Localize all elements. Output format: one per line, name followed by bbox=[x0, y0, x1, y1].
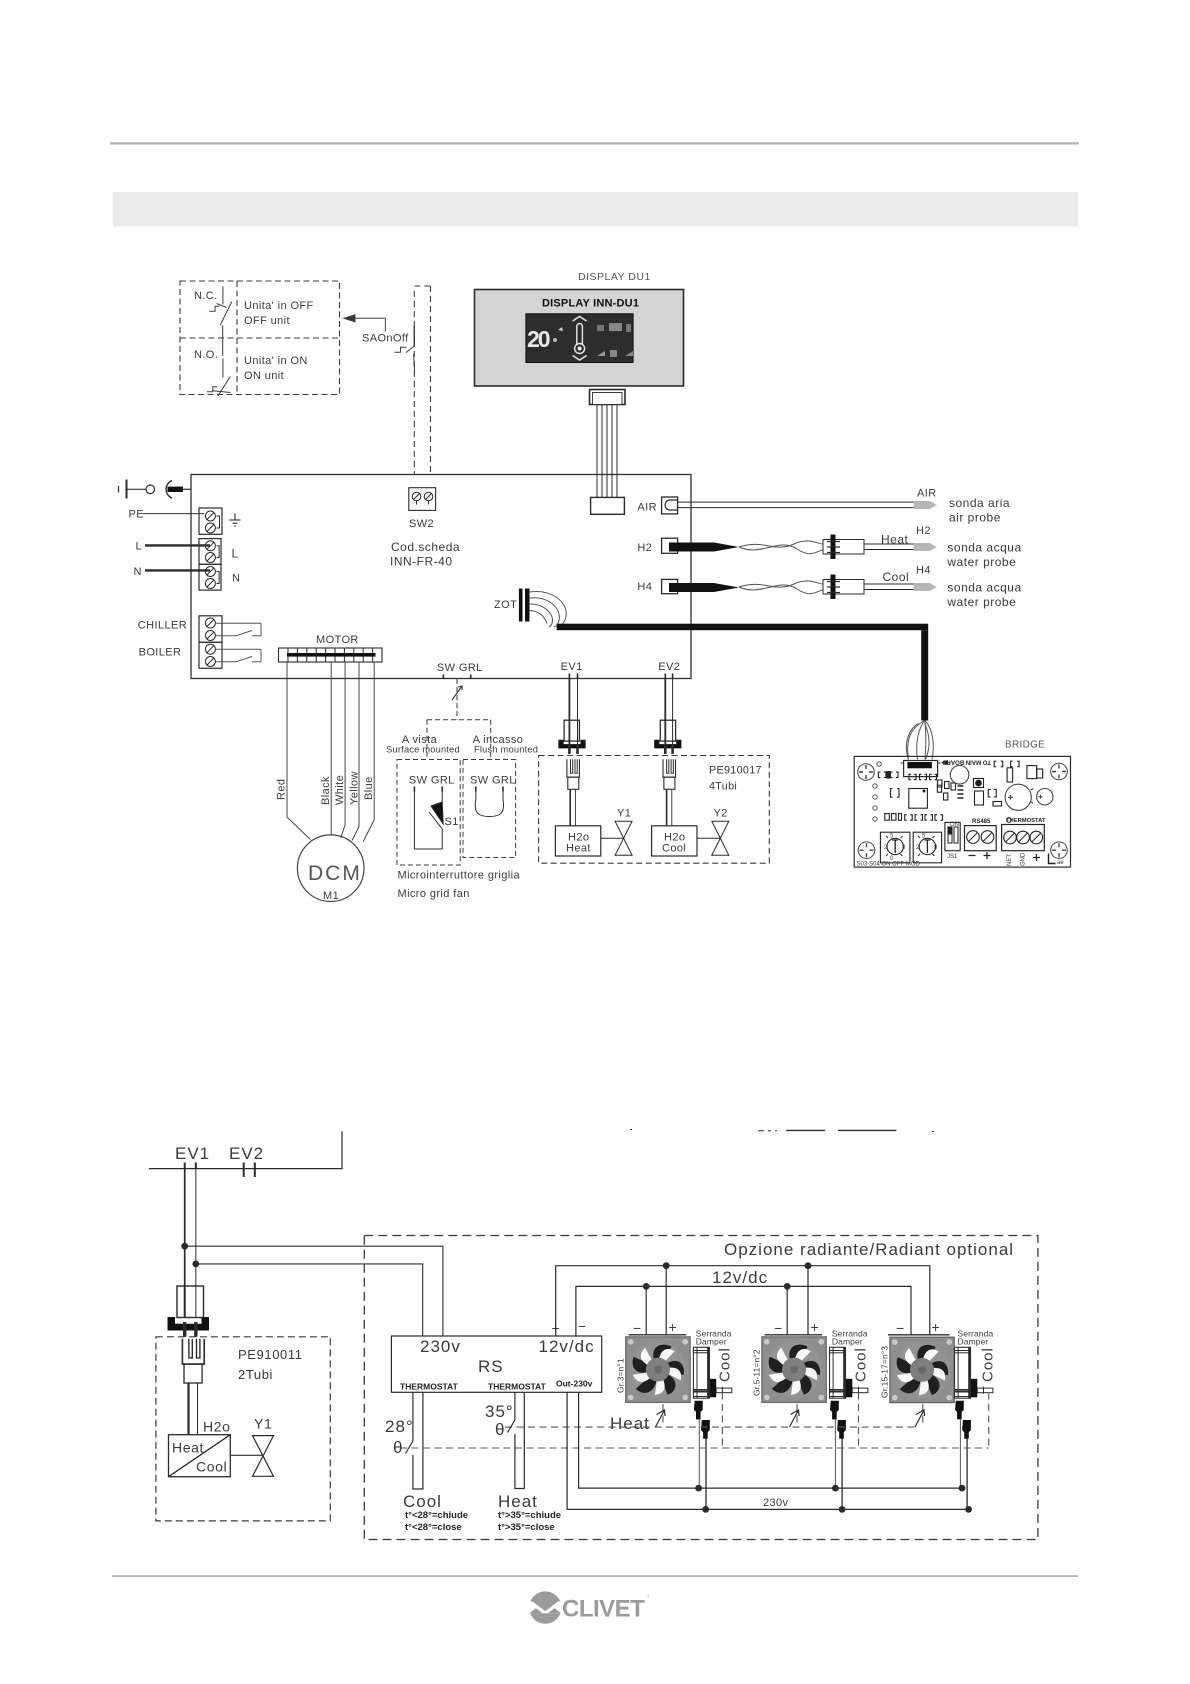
svg-text:−: − bbox=[896, 1320, 905, 1336]
motor DCM M1 bbox=[297, 835, 364, 902]
banner bar bbox=[113, 192, 1078, 227]
motor connector strip bbox=[279, 634, 383, 662]
svg-text:TO MAIN BOARD: TO MAIN BOARD bbox=[941, 759, 991, 765]
label EV2 (board edge) bbox=[658, 661, 680, 679]
fan 1 bbox=[616, 1335, 691, 1403]
PE910011 dashed box bbox=[156, 1337, 330, 1521]
bridge small components bbox=[878, 761, 1042, 820]
bridge capacitor small bbox=[1037, 789, 1053, 805]
thermostat 35 leg bbox=[485, 1392, 524, 1488]
svg-text:sonda aria: sonda aria bbox=[949, 496, 1010, 510]
svg-text:4Tubi: 4Tubi bbox=[709, 781, 737, 793]
svg-text:DCM: DCM bbox=[308, 862, 362, 885]
bus junction dots bbox=[643, 1262, 812, 1290]
bus junction dots lower bbox=[695, 1485, 972, 1513]
svg-text:H4: H4 bbox=[916, 565, 931, 577]
lower EV1 plug bbox=[168, 1286, 210, 1337]
damper 2 bbox=[830, 1329, 870, 1399]
display INN-DU1 label bbox=[542, 298, 639, 310]
label sonda acqua H2 bbox=[946, 541, 1021, 570]
svg-text:air probe: air probe bbox=[949, 511, 1001, 525]
svg-text:H4: H4 bbox=[637, 581, 652, 593]
motor wire blue bbox=[363, 662, 375, 842]
bridge cable connector bbox=[901, 761, 941, 777]
svg-text:35°: 35° bbox=[485, 1402, 514, 1421]
H4 thick wire bbox=[669, 581, 835, 594]
svg-text:SW GRL: SW GRL bbox=[437, 662, 483, 674]
svg-text:−: − bbox=[774, 1320, 783, 1336]
air probe wires bbox=[678, 502, 914, 508]
flush mounted dashed box bbox=[463, 760, 516, 858]
svg-text:BRIDGE: BRIDGE bbox=[1005, 740, 1045, 751]
svg-text:Heat: Heat bbox=[610, 1414, 650, 1433]
bridge bottom-left text bbox=[857, 862, 921, 868]
svg-text:Damper: Damper bbox=[832, 1337, 863, 1347]
terminal PE bbox=[129, 508, 223, 534]
svg-text:DISPLAY DU1: DISPLAY DU1 bbox=[578, 271, 651, 283]
EV2 wires bbox=[665, 679, 672, 753]
label A vista bbox=[386, 734, 460, 754]
svg-text:Cool: Cool bbox=[853, 1347, 870, 1382]
svg-text:INN-FR-40: INN-FR-40 bbox=[390, 555, 453, 569]
valve H2o Heat bbox=[555, 826, 600, 856]
svg-text:+: + bbox=[811, 1319, 820, 1335]
bridge mounting holes bbox=[858, 762, 1068, 859]
svg-text:Damper: Damper bbox=[696, 1337, 727, 1347]
svg-text:EV1: EV1 bbox=[561, 661, 583, 673]
caption micro grid switch bbox=[398, 870, 521, 901]
svg-text:RS: RS bbox=[478, 1357, 504, 1376]
port H4 bbox=[637, 579, 677, 593]
svg-text:t°<28°=close: t°<28°=close bbox=[405, 1522, 462, 1533]
svg-text:sonda acqua: sonda acqua bbox=[947, 581, 1021, 595]
svg-text:Heat: Heat bbox=[566, 843, 591, 855]
H2 probe capsule bbox=[914, 525, 937, 551]
svg-text:ON unit: ON unit bbox=[244, 370, 284, 382]
mains entry plug bbox=[119, 480, 192, 499]
terminal CHILLER bbox=[138, 616, 222, 643]
12v dc bus wires bbox=[556, 1266, 930, 1336]
motor wire black bbox=[320, 662, 332, 835]
svg-text:Unita' in OFF: Unita' in OFF bbox=[244, 300, 314, 312]
fan 3 bbox=[880, 1335, 955, 1403]
svg-text:THERMOSTAT: THERMOSTAT bbox=[488, 1382, 547, 1392]
relay contact chiller bbox=[216, 623, 261, 636]
svg-text:Out-230v: Out-230v bbox=[556, 1379, 593, 1389]
wire-count marks bbox=[656, 1410, 925, 1427]
rotary switch SW1 bbox=[880, 832, 910, 863]
svg-text:SW GRL: SW GRL bbox=[409, 775, 455, 787]
svg-text:θ: θ bbox=[495, 1420, 505, 1439]
lower valve Y1 bbox=[230, 1416, 273, 1477]
EV2 plug bbox=[654, 720, 681, 754]
svg-text:Microinterruttore griglia: Microinterruttore griglia bbox=[398, 870, 521, 882]
svg-text:Micro grid fan: Micro grid fan bbox=[398, 888, 470, 900]
svg-text:H2: H2 bbox=[916, 525, 931, 537]
H2 probe wires bbox=[864, 533, 914, 550]
svg-text:θ: θ bbox=[393, 1438, 403, 1457]
Clivet logo bbox=[527, 1591, 649, 1623]
port AIR bbox=[637, 497, 677, 514]
svg-text:ON: ON bbox=[950, 822, 959, 828]
label SW GRL (board edge) bbox=[437, 662, 483, 679]
svg-text:12v/dc: 12v/dc bbox=[712, 1268, 768, 1287]
svg-text:THERMOSTAT: THERMOSTAT bbox=[400, 1382, 459, 1392]
terminal N bbox=[134, 564, 241, 590]
svg-text:Cool: Cool bbox=[883, 570, 910, 584]
H2 thick wire bbox=[669, 541, 835, 554]
H4 inline connector bbox=[823, 575, 864, 600]
svg-text:Cool: Cool bbox=[403, 1492, 442, 1511]
display DU1 housing bbox=[475, 290, 684, 387]
damper 2 plugs bbox=[830, 1401, 846, 1510]
svg-text:Y1: Y1 bbox=[617, 808, 631, 820]
label EV1 (board edge) bbox=[561, 661, 583, 679]
svg-text:12v/dc: 12v/dc bbox=[539, 1337, 595, 1356]
fan 2 bbox=[752, 1335, 827, 1403]
svg-text:ae: ae bbox=[1057, 860, 1064, 866]
cool dashed line bbox=[400, 1393, 989, 1449]
thermostat captions bbox=[403, 1492, 561, 1533]
air probe capsule bbox=[914, 488, 937, 510]
board code label bbox=[390, 540, 460, 569]
svg-text:Opzione radiante/Radiant optio: Opzione radiante/Radiant optional bbox=[724, 1240, 1014, 1259]
svg-text:N.O.: N.O. bbox=[194, 349, 218, 361]
svg-text:CLIVET: CLIVET bbox=[562, 1596, 645, 1623]
svg-text:2Tubi: 2Tubi bbox=[238, 1367, 273, 1382]
label A incasso bbox=[473, 734, 539, 754]
svg-text:EV1: EV1 bbox=[175, 1144, 210, 1163]
svg-text:Blue: Blue bbox=[363, 776, 375, 800]
bridge board outline bbox=[854, 756, 1070, 867]
display cable board connector bbox=[591, 497, 625, 514]
plus minus labels bbox=[552, 1318, 587, 1336]
valve H2o Cool bbox=[652, 826, 697, 856]
svg-text:OFF unit: OFF unit bbox=[244, 315, 290, 327]
svg-text:20: 20 bbox=[527, 326, 550, 352]
svg-text:Cool: Cool bbox=[717, 1347, 734, 1382]
bridge relay circle bbox=[950, 766, 969, 785]
bridge capacitor large bbox=[1005, 784, 1033, 810]
svg-text:Surface mounted: Surface mounted bbox=[386, 744, 460, 754]
svg-text:H2: H2 bbox=[637, 542, 652, 554]
lower valve comb connector bbox=[182, 1339, 204, 1435]
svg-text:8: 8 bbox=[934, 845, 938, 851]
label BRIDGE bbox=[1005, 740, 1045, 751]
out-230v wires bbox=[567, 1392, 969, 1509]
svg-text:sonda acqua: sonda acqua bbox=[947, 541, 1021, 555]
rotary switch SW2b bbox=[913, 832, 941, 863]
svg-text:Heat: Heat bbox=[881, 533, 909, 547]
EV1 wires bbox=[569, 679, 577, 753]
switch S1 surface bbox=[409, 775, 459, 850]
radiant option dashed box bbox=[364, 1236, 1038, 1540]
dash-dot boundary lines bbox=[414, 286, 430, 474]
svg-text:N: N bbox=[134, 566, 142, 578]
svg-text:Cool: Cool bbox=[662, 843, 686, 855]
svg-text:EV2: EV2 bbox=[658, 661, 680, 673]
bridge corner mark bbox=[1049, 854, 1065, 867]
svg-text:230v: 230v bbox=[763, 1497, 789, 1509]
svg-text:N.C.: N.C. bbox=[194, 290, 218, 302]
fan tap wires bbox=[646, 1266, 808, 1335]
switch SAOnOff bbox=[362, 325, 415, 372]
svg-text:t°<28°=chiude: t°<28°=chiude bbox=[405, 1510, 468, 1521]
svg-text:RS485: RS485 bbox=[972, 819, 991, 825]
svg-text:Damper: Damper bbox=[958, 1337, 989, 1347]
svg-text:CHILLER: CHILLER bbox=[138, 620, 187, 632]
svg-text:Yellow: Yellow bbox=[349, 771, 361, 805]
valve Heat/Cool box bbox=[169, 1419, 231, 1477]
svg-text:−: − bbox=[578, 1318, 586, 1334]
label sonda acqua H4 bbox=[946, 581, 1021, 610]
junction dots bbox=[181, 1243, 199, 1268]
EV2 valve connector comb bbox=[663, 759, 676, 826]
main cable to bridge bbox=[557, 624, 929, 721]
svg-text:Cool: Cool bbox=[196, 1459, 227, 1475]
valve Y1 bbox=[601, 808, 632, 856]
stray header line fragments bbox=[630, 1130, 934, 1132]
motor wire yellow bbox=[349, 662, 361, 841]
svg-text:AIR: AIR bbox=[637, 502, 657, 514]
svg-text:t°>35°=chiude: t°>35°=chiude bbox=[498, 1510, 561, 1521]
damper 3 bbox=[955, 1329, 997, 1399]
arrow wire to SAOnOff bbox=[344, 315, 385, 332]
svg-text:BOILER: BOILER bbox=[139, 647, 182, 659]
remote on/off selector dashed box bbox=[180, 281, 340, 395]
svg-text:SW2: SW2 bbox=[409, 518, 434, 530]
relay contact boiler bbox=[216, 649, 261, 662]
grid switch dashed drop wire bbox=[427, 679, 491, 757]
svg-text:GND: GND bbox=[1021, 852, 1027, 866]
svg-text:Heat: Heat bbox=[172, 1440, 204, 1456]
motor wire white bbox=[334, 662, 346, 838]
heat dashed line bbox=[505, 1404, 923, 1427]
svg-text:SW GRL: SW GRL bbox=[470, 775, 516, 787]
EV1 plug bbox=[558, 720, 585, 754]
contact N.O. bbox=[194, 349, 230, 396]
svg-text:Gr.3=n°1: Gr.3=n°1 bbox=[616, 1358, 626, 1393]
svg-text:’: ’ bbox=[647, 1594, 649, 1604]
RS power supply box bbox=[391, 1336, 601, 1392]
label TO MAIN BOARD bbox=[941, 759, 991, 766]
svg-text:Y1: Y1 bbox=[254, 1416, 272, 1432]
H4 probe wires bbox=[864, 570, 914, 590]
dip switch SW2 bbox=[409, 488, 436, 530]
svg-text:JS1: JS1 bbox=[947, 854, 958, 860]
svg-text:PE910011: PE910011 bbox=[238, 1347, 303, 1362]
thermostat 28 leg bbox=[385, 1392, 423, 1489]
svg-text:AIR: AIR bbox=[917, 488, 937, 500]
loop flush bbox=[470, 775, 516, 817]
EV1 valve connector comb bbox=[567, 759, 580, 826]
svg-text:water probe: water probe bbox=[946, 555, 1016, 569]
surface mounted dashed box bbox=[397, 760, 460, 866]
motor wire red bbox=[276, 662, 311, 840]
port H2 bbox=[637, 538, 677, 554]
fan polarity labels bbox=[633, 1319, 940, 1336]
svg-text:SAOnOff: SAOnOff bbox=[362, 333, 409, 345]
display cable connector bbox=[590, 390, 626, 405]
svg-text:−: − bbox=[633, 1320, 642, 1336]
damper 1 bbox=[693, 1329, 733, 1399]
label unit ON bbox=[244, 355, 308, 382]
svg-text:Y2: Y2 bbox=[714, 808, 728, 820]
svg-text:EV2: EV2 bbox=[229, 1144, 264, 1163]
svg-text:Heat: Heat bbox=[498, 1492, 538, 1511]
header rule bbox=[110, 142, 1079, 144]
svg-text:Cool: Cool bbox=[979, 1347, 996, 1382]
svg-text:L: L bbox=[232, 547, 239, 561]
svg-text:8: 8 bbox=[902, 845, 906, 851]
lower EV1 wires bbox=[185, 1169, 196, 1286]
svg-text:DISPLAY INN-DU1: DISPLAY INN-DU1 bbox=[542, 298, 639, 310]
lower board edge line bbox=[149, 1131, 342, 1177]
terminal BOILER bbox=[139, 642, 222, 668]
display LCD panel bbox=[526, 314, 633, 363]
terminal L bbox=[136, 539, 239, 565]
label sonda aria bbox=[949, 496, 1010, 525]
svg-text:Gr.5-11=n°2: Gr.5-11=n°2 bbox=[752, 1349, 762, 1396]
svg-text:water probe: water probe bbox=[946, 595, 1016, 609]
dip switch JS1 bbox=[945, 822, 960, 860]
svg-text:NET: NET bbox=[1007, 854, 1013, 866]
svg-text:28°: 28° bbox=[385, 1417, 414, 1436]
svg-text:+: + bbox=[932, 1319, 941, 1335]
svg-text:PE910017: PE910017 bbox=[709, 765, 762, 777]
svg-text:S03-S04 ON OFF MOD: S03-S04 ON OFF MOD bbox=[857, 862, 921, 868]
main board INN-FR-40 bbox=[191, 475, 691, 679]
svg-text:+: + bbox=[669, 1319, 678, 1335]
wires to RS 230v bbox=[185, 1246, 443, 1336]
svg-text:t°>35°=close: t°>35°=close bbox=[498, 1522, 555, 1533]
PE910017 dashed box bbox=[539, 756, 770, 864]
footer rule bbox=[112, 1575, 1078, 1577]
svg-text:PE: PE bbox=[129, 509, 144, 521]
svg-text:Black: Black bbox=[320, 776, 332, 805]
svg-text:H2o: H2o bbox=[203, 1419, 230, 1435]
bridge IC bbox=[909, 789, 928, 809]
damper 1 plugs bbox=[694, 1401, 710, 1510]
svg-text:230v: 230v bbox=[420, 1337, 461, 1356]
svg-text:Gr.15-17=n°3: Gr.15-17=n°3 bbox=[880, 1346, 890, 1398]
damper 3 plugs bbox=[955, 1401, 971, 1510]
lower EV1 EV2 labels bbox=[175, 1144, 264, 1163]
svg-text:White: White bbox=[334, 775, 346, 805]
svg-text:S1: S1 bbox=[445, 816, 459, 828]
svg-text:THERMOSTAT: THERMOSTAT bbox=[1006, 818, 1046, 824]
svg-text:M1: M1 bbox=[323, 890, 339, 902]
display cable wires bbox=[597, 405, 617, 498]
svg-text:Red: Red bbox=[276, 779, 288, 800]
svg-text:Unita' in ON: Unita' in ON bbox=[244, 355, 308, 367]
svg-text:Flush mounted: Flush mounted bbox=[474, 744, 538, 754]
bridge cable flare bbox=[906, 721, 933, 760]
H4 probe capsule bbox=[914, 565, 937, 592]
svg-text:N: N bbox=[232, 573, 240, 585]
Heat label bbox=[610, 1414, 650, 1433]
valve Y2 bbox=[697, 808, 729, 856]
svg-text:ZOT: ZOT bbox=[494, 599, 517, 611]
H2 inline connector bbox=[823, 535, 864, 560]
contact N.C. bbox=[194, 286, 232, 356]
terminal RS485 bbox=[965, 819, 997, 859]
svg-text:Cod.scheda: Cod.scheda bbox=[391, 540, 460, 554]
svg-text:L: L bbox=[136, 541, 143, 553]
label unit OFF bbox=[244, 300, 314, 327]
earth symbol bbox=[230, 514, 241, 527]
ZOT ribbon wires bbox=[530, 591, 567, 627]
connector ZOT bbox=[494, 589, 530, 622]
svg-text:MOTOR: MOTOR bbox=[316, 634, 359, 646]
terminal THERMOSTAT bbox=[1002, 818, 1046, 866]
display DU1 label bbox=[578, 271, 651, 283]
